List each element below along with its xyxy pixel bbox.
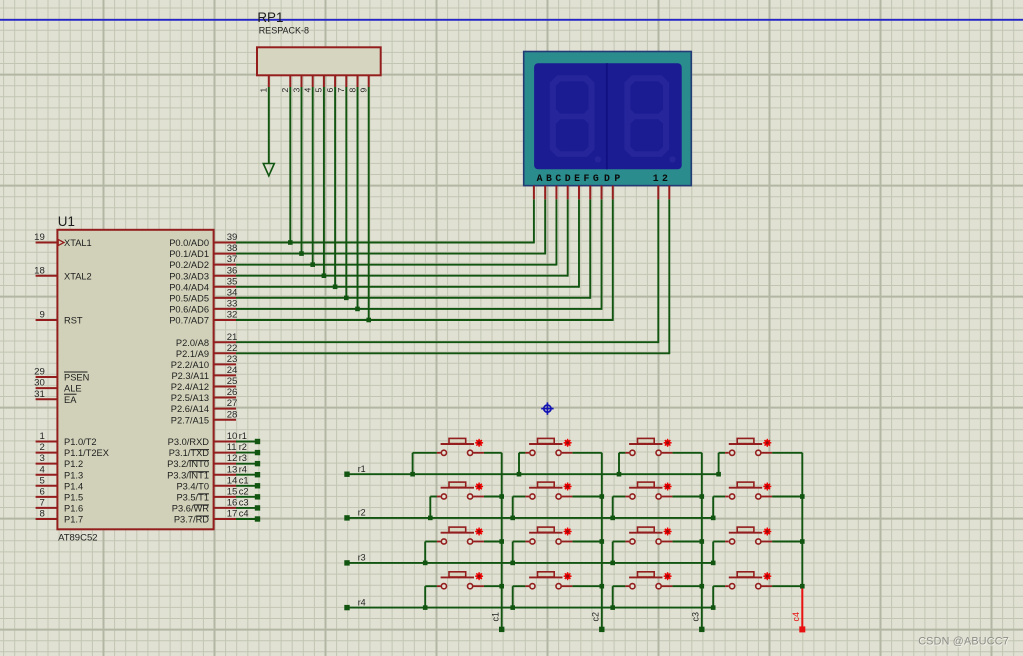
- svg-text:P2.7/A15: P2.7/A15: [171, 415, 209, 425]
- svg-text:P2.3/A11: P2.3/A11: [171, 371, 209, 381]
- svg-text:PSEN: PSEN: [64, 373, 89, 383]
- svg-text:RST: RST: [64, 316, 83, 326]
- svg-text:12: 12: [227, 453, 238, 464]
- svg-text:12: 12: [653, 173, 671, 184]
- svg-text:39: 39: [227, 232, 238, 243]
- svg-text:r1: r1: [239, 431, 247, 441]
- svg-text:P1.4: P1.4: [64, 481, 83, 491]
- svg-text:23: 23: [227, 354, 238, 365]
- svg-text:15: 15: [227, 486, 238, 497]
- svg-text:22: 22: [227, 343, 238, 354]
- svg-text:c2: c2: [591, 612, 601, 622]
- svg-text:27: 27: [227, 398, 238, 409]
- svg-text:P2.6/A14: P2.6/A14: [171, 404, 209, 414]
- svg-text:16: 16: [227, 498, 238, 509]
- svg-text:XTAL2: XTAL2: [64, 271, 92, 281]
- svg-text:P1.7: P1.7: [64, 515, 83, 525]
- svg-text:P1.0/T2: P1.0/T2: [64, 437, 97, 447]
- svg-text:r4: r4: [239, 464, 247, 474]
- svg-text:37: 37: [227, 254, 238, 265]
- svg-text:11: 11: [227, 442, 237, 453]
- svg-text:10: 10: [227, 431, 238, 442]
- svg-text:25: 25: [227, 376, 238, 387]
- svg-text:ABCDEFG: ABCDEFG: [537, 173, 603, 184]
- svg-text:c4: c4: [239, 509, 249, 519]
- svg-text:18: 18: [34, 265, 45, 276]
- svg-text:c3: c3: [239, 498, 249, 508]
- svg-text:r2: r2: [358, 508, 366, 518]
- svg-text:38: 38: [227, 243, 238, 254]
- svg-text:35: 35: [227, 276, 238, 287]
- svg-text:r2: r2: [239, 442, 247, 452]
- svg-text:P1.1/T2EX: P1.1/T2EX: [64, 448, 109, 458]
- svg-text:21: 21: [227, 332, 238, 343]
- svg-text:2: 2: [39, 442, 44, 453]
- svg-text:2: 2: [280, 88, 290, 93]
- svg-text:P0.6/AD6: P0.6/AD6: [169, 305, 209, 315]
- svg-text:13: 13: [227, 464, 238, 475]
- svg-text:P0.4/AD4: P0.4/AD4: [169, 282, 209, 292]
- svg-text:1: 1: [39, 431, 44, 442]
- svg-text:AT89C52: AT89C52: [58, 533, 97, 544]
- svg-text:5: 5: [39, 475, 44, 486]
- svg-text:P1.5: P1.5: [64, 493, 83, 503]
- svg-text:P0.2/AD2: P0.2/AD2: [169, 260, 209, 270]
- svg-text:7: 7: [39, 498, 44, 509]
- svg-text:c1: c1: [239, 475, 249, 485]
- svg-text:P2.2/A10: P2.2/A10: [171, 360, 209, 370]
- svg-text:c2: c2: [239, 486, 249, 496]
- svg-text:RESPACK-8: RESPACK-8: [259, 26, 309, 36]
- svg-text:P0.5/AD5: P0.5/AD5: [169, 293, 209, 303]
- svg-text:RP1: RP1: [257, 10, 283, 25]
- svg-text:r3: r3: [239, 453, 247, 463]
- svg-text:P0.1/AD1: P0.1/AD1: [169, 249, 209, 259]
- svg-text:XTAL1: XTAL1: [64, 238, 92, 248]
- svg-text:P1.3: P1.3: [64, 470, 83, 480]
- svg-text:8: 8: [39, 509, 44, 520]
- svg-text:P2.4/A12: P2.4/A12: [171, 382, 209, 392]
- svg-text:6: 6: [325, 88, 335, 93]
- svg-text:P2.5/A13: P2.5/A13: [171, 393, 209, 403]
- svg-text:8: 8: [347, 88, 357, 93]
- svg-text:34: 34: [227, 287, 238, 298]
- svg-text:r4: r4: [358, 597, 366, 607]
- svg-text:CSDN @ABUCC7: CSDN @ABUCC7: [918, 636, 1009, 648]
- svg-text:33: 33: [227, 299, 238, 310]
- svg-text:P2.1/A9: P2.1/A9: [176, 349, 209, 359]
- svg-text:P2.0/A8: P2.0/A8: [176, 338, 209, 348]
- svg-text:31: 31: [34, 389, 45, 400]
- svg-text:P3.0/RXD: P3.0/RXD: [168, 437, 210, 447]
- svg-text:32: 32: [227, 310, 238, 321]
- svg-text:28: 28: [227, 409, 238, 420]
- svg-text:9: 9: [359, 88, 369, 93]
- svg-text:14: 14: [227, 475, 238, 486]
- svg-text:c4: c4: [791, 612, 801, 622]
- svg-text:r3: r3: [358, 553, 366, 563]
- svg-text:1: 1: [259, 88, 269, 93]
- svg-text:19: 19: [34, 232, 45, 243]
- svg-text:9: 9: [39, 310, 44, 321]
- svg-text:c1: c1: [491, 612, 501, 622]
- svg-text:29: 29: [34, 367, 45, 378]
- svg-text:r1: r1: [358, 464, 366, 474]
- svg-text:P1.6: P1.6: [64, 504, 83, 514]
- svg-text:EA: EA: [64, 395, 77, 405]
- svg-text:ALE: ALE: [64, 384, 82, 394]
- svg-text:3: 3: [291, 88, 301, 93]
- svg-text:4: 4: [303, 88, 313, 93]
- svg-text:3: 3: [39, 453, 44, 464]
- svg-text:P3.4/T0: P3.4/T0: [176, 481, 209, 491]
- svg-text:DP: DP: [604, 173, 625, 184]
- svg-text:24: 24: [227, 365, 238, 376]
- svg-text:5: 5: [314, 88, 324, 93]
- svg-text:P0.0/AD0: P0.0/AD0: [169, 238, 209, 248]
- svg-text:7: 7: [336, 88, 346, 93]
- svg-text:36: 36: [227, 265, 238, 276]
- svg-text:P1.2: P1.2: [64, 459, 83, 469]
- svg-text:6: 6: [39, 487, 44, 498]
- svg-text:4: 4: [39, 464, 45, 475]
- svg-text:c3: c3: [691, 612, 701, 622]
- svg-text:30: 30: [34, 378, 45, 389]
- svg-text:P0.3/AD3: P0.3/AD3: [169, 271, 209, 281]
- svg-text:U1: U1: [58, 214, 75, 229]
- svg-text:P0.7/AD7: P0.7/AD7: [169, 316, 209, 326]
- svg-text:26: 26: [227, 387, 238, 398]
- svg-text:17: 17: [227, 509, 238, 520]
